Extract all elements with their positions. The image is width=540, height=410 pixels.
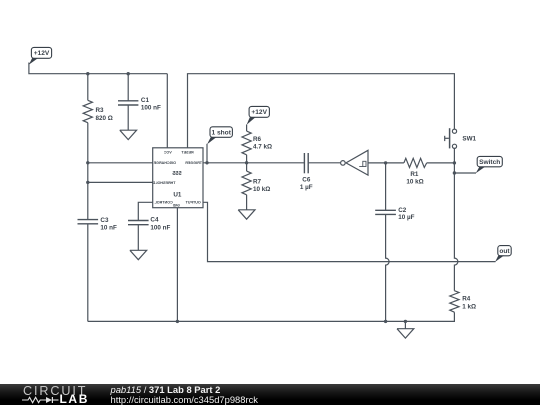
svg-text:1 shot: 1 shot (211, 129, 231, 136)
wire TRIGGER net: U1 pin to R7/R6 node to C6 (203, 162, 304, 164)
junction node ground on bottom rail (404, 320, 407, 323)
capacitor C2 (375, 210, 396, 214)
wire C1 bottom lead to ground (127, 105, 129, 130)
svg-text:CONTROL: CONTROL (154, 201, 173, 205)
junction node R1/SW1 tee (453, 161, 456, 164)
wire GND pin down to bottom rail (176, 208, 178, 322)
svg-text:C6: C6 (302, 177, 311, 184)
svg-text:R3: R3 (96, 107, 105, 114)
ground on bottom rail (397, 321, 414, 338)
label R3 value (96, 107, 113, 122)
svg-text:+12V: +12V (34, 50, 50, 57)
junction node C2 on bottom rail (384, 320, 387, 323)
label C1 value (141, 97, 161, 112)
wire VCC drop to U1 pin (166, 74, 168, 148)
svg-text:R6: R6 (253, 136, 262, 143)
capacitor C3 (78, 220, 99, 224)
resistor R4 (450, 291, 459, 313)
svg-text:VCC: VCC (164, 150, 172, 154)
svg-text:820 Ω: 820 Ω (96, 115, 113, 122)
wire THRESHOLD pin to left column (88, 181, 153, 183)
capacitor C6 (304, 153, 308, 173)
wire C4 bottom lead to ground (137, 225, 139, 250)
junction node inverter out/C2 tee (384, 161, 387, 164)
resistor R7 (242, 171, 251, 195)
svg-text:1 µF: 1 µF (300, 184, 313, 191)
wire +12V rail from flag to VCC corner (29, 63, 167, 74)
svg-text:C3: C3 (100, 217, 109, 224)
wire OUTPUT pin right, down, and out net to flag (203, 202, 496, 261)
svg-text:10 kΩ: 10 kΩ (406, 179, 423, 186)
IC U1 pin labels (mirrored 555 symbol) (152, 150, 202, 207)
label C6 value (300, 177, 313, 192)
svg-text:R4: R4 (462, 296, 471, 303)
svg-text:RESET: RESET (181, 150, 194, 154)
ground under R7 (238, 210, 255, 219)
wire DISCHARGE pin to left column (88, 162, 153, 164)
wire 1shot flag stem (206, 144, 208, 163)
wire switch flag stem (454, 172, 476, 174)
op-amp style inverter gate (Schmitt, mirrored) (341, 150, 368, 175)
resistor R3 (83, 100, 92, 122)
junction node DISCHARGE tee (86, 161, 89, 164)
wire R7 top lead (246, 163, 248, 171)
net flag +12V (top left) (29, 47, 52, 64)
svg-text:TRIGGER: TRIGGER (185, 161, 202, 165)
svg-text:10 nF: 10 nF (100, 225, 117, 232)
label R4 value (462, 296, 476, 311)
svg-text:555: 555 (172, 171, 181, 177)
url text (111, 394, 258, 405)
IC U1 555 body (153, 148, 203, 208)
wire C2 column with hop over out wire (386, 163, 390, 322)
wire CONTROL pin to C4 (138, 202, 152, 220)
svg-text:R7: R7 (253, 178, 262, 185)
resistor R1 (404, 158, 427, 167)
svg-text:DISCHARGE: DISCHARGE (153, 161, 176, 165)
svg-text:100 nF: 100 nF (150, 224, 170, 231)
logo resistor + diode glyph (22, 396, 60, 404)
svg-text:R1: R1 (410, 171, 419, 178)
wire R3 bottom to C3 and bottom rail (C3 in line) (87, 123, 89, 220)
junction node 1shot tee (205, 161, 208, 164)
svg-text:C1: C1 (141, 97, 150, 104)
net flag +12V (above R6) (247, 106, 270, 124)
wire R3 top lead (87, 74, 89, 101)
svg-text:SW1: SW1 (462, 136, 476, 143)
junction node THRESHOLD tee (86, 181, 89, 184)
junction node Switch flag tee (453, 171, 456, 174)
junction node R6/R7/C6 tee (245, 161, 248, 164)
svg-text:THRESHOLD: THRESHOLD (152, 181, 175, 185)
net flag out (495, 246, 511, 262)
ground under C4 (130, 250, 147, 259)
wire R4 bottom lead and bottom ground rail (88, 312, 455, 321)
wire R1 right lead to switch column (427, 162, 455, 164)
svg-text:1 kΩ: 1 kΩ (462, 303, 476, 310)
svg-text:GND: GND (172, 203, 180, 207)
capacitor C1 (118, 101, 138, 105)
wire SW1 bottom to R4 with hop over out wire (454, 148, 458, 290)
logo CIRCUIT (23, 384, 87, 398)
svg-text:10 µF: 10 µF (398, 214, 414, 221)
net flag 1 shot (207, 127, 232, 145)
junction node GND pin on bottom rail (176, 320, 179, 323)
label R6 value (253, 136, 272, 151)
wire C1 top lead (127, 74, 129, 101)
svg-text:C4: C4 (150, 217, 159, 224)
wire R6 bottom lead (246, 155, 248, 163)
svg-text:100 nF: 100 nF (141, 104, 161, 111)
label C3 value (100, 217, 117, 232)
label SW1 (462, 136, 476, 143)
junction node C1/+12V rail (127, 72, 130, 75)
title text (111, 384, 221, 395)
label R7 value (253, 178, 270, 193)
svg-text:U1: U1 (173, 192, 182, 199)
net flag Switch (476, 156, 503, 173)
svg-text:4.7 kΩ: 4.7 kΩ (253, 144, 272, 151)
svg-text:10 kΩ: 10 kΩ (253, 186, 270, 193)
footer bar CircuitLab (0, 384, 540, 405)
wire C6 right lead to inverter bubble (308, 162, 340, 164)
ground under C1 (120, 130, 137, 139)
label R1 value (406, 171, 423, 186)
wire R7 bottom lead to ground (246, 195, 248, 210)
svg-text:+12V: +12V (251, 109, 267, 116)
switch SW1 (445, 128, 457, 148)
svg-text:OUTPUT: OUTPUT (185, 201, 201, 205)
junction node R3/+12V rail (86, 72, 89, 75)
wire inverter output to R1 (368, 162, 404, 164)
resistor R6 (242, 131, 251, 155)
wire RESET net: U1 pin up, right, down to SW1 (188, 74, 455, 148)
svg-text:out: out (499, 248, 510, 255)
label C2 value (398, 207, 414, 221)
svg-text:Switch: Switch (479, 159, 500, 166)
label C4 value (150, 217, 170, 232)
wire R6 top lead from +12V flag (246, 125, 248, 132)
logo LAB (60, 392, 89, 406)
capacitor C4 (128, 221, 149, 225)
